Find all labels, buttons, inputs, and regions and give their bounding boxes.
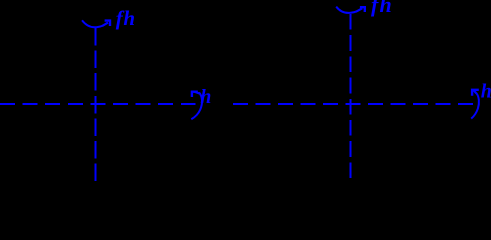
wire left vertical axis [95, 28, 97, 181]
svg-text:fh: fh [371, 0, 393, 17]
rotation arrow mid-left arc [191, 92, 202, 120]
rotation arrow far-right arc [471, 90, 479, 119]
rotation arrow top-left arc [82, 20, 110, 27]
svg-text:h: h [481, 81, 491, 103]
rotation arrow top-right arc [336, 7, 365, 13]
svg-text:fh: fh [116, 6, 136, 30]
wire horizontal axis middle segment [233, 103, 473, 105]
wire horizontal axis left segment [0, 103, 196, 105]
svg-text:h: h [200, 86, 211, 108]
wire right vertical axis [350, 14, 352, 181]
